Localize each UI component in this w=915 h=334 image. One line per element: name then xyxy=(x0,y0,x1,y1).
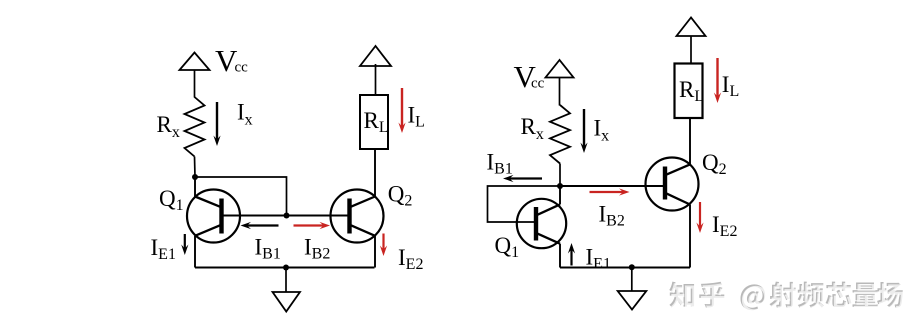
label Vcc (right) xyxy=(514,59,545,94)
label RL (right) xyxy=(679,77,704,105)
svg-text:IE1: IE1 xyxy=(151,235,176,263)
label Ix (left) xyxy=(237,100,253,129)
current arrow IE2 (left) xyxy=(380,234,387,257)
wire rail to ground (left) xyxy=(285,268,287,293)
junction dot ground rail (right) xyxy=(629,264,635,270)
current arrow IE2 (right) xyxy=(696,202,703,233)
transistor Q1 (left): circle, base bar, collector and emitter leads xyxy=(187,179,240,268)
label Rx (right) xyxy=(521,114,544,143)
resistor Rx (right) xyxy=(550,105,570,164)
label IE2 (right) xyxy=(712,212,737,240)
power Vcc symbol (right, RL branch) xyxy=(677,18,706,37)
svg-text:Q2: Q2 xyxy=(388,182,413,210)
label IE1 (left) xyxy=(151,235,176,263)
svg-text:Q1: Q1 xyxy=(159,186,184,214)
label Vcc (left) xyxy=(215,43,248,78)
wire rail to ground (right) xyxy=(631,267,633,291)
label Q2 (left) xyxy=(388,182,413,210)
transistor Q2 (left): circle, base bar, collector and emitter leads xyxy=(331,149,384,268)
current arrow IE1 (left) xyxy=(181,234,188,255)
wire Q1 base to Q2 base (left) xyxy=(222,215,350,217)
svg-text:IE2: IE2 xyxy=(398,245,423,273)
svg-text:Ix: Ix xyxy=(237,100,253,129)
current arrow Ix (right) xyxy=(580,109,587,153)
svg-text:Ix: Ix xyxy=(594,116,610,145)
ground symbol (left) xyxy=(273,292,300,312)
svg-text:IL: IL xyxy=(722,72,739,100)
wire Rx to node D (right) xyxy=(559,164,561,187)
node A: Rx bottom / Q1 collector junction (left) xyxy=(192,174,198,180)
node D: Rx bottom / Q1 collector / Q2 base junction (right) xyxy=(557,183,563,189)
label Q2 (right) xyxy=(702,150,727,178)
svg-text:RL: RL xyxy=(364,108,389,136)
ground symbol (right) xyxy=(618,291,647,310)
transistor Q2 (right): circle, base bar, collector and emitter leads xyxy=(646,118,699,268)
wire node A to base junction (left) xyxy=(195,177,287,216)
wire Vcc to RL (left) xyxy=(375,64,377,95)
svg-text:Q2: Q2 xyxy=(702,150,727,178)
label IE2 (left) xyxy=(398,245,423,273)
power Vcc symbol (left, RL branch) xyxy=(360,46,391,66)
svg-text:IB1: IB1 xyxy=(255,235,281,263)
current arrow IL (left) xyxy=(398,88,405,133)
svg-text:Rx: Rx xyxy=(521,114,544,143)
resistor Rx (left) xyxy=(185,97,205,157)
junction dot ground rail (left) xyxy=(283,265,289,271)
current arrow IE1 (right) xyxy=(568,243,575,266)
svg-text:Vcc: Vcc xyxy=(514,59,545,94)
wire Vcc to RL (right) xyxy=(690,36,692,63)
label IB1 (right) xyxy=(487,150,513,178)
watermark text 知乎 @射频芯量场 xyxy=(669,282,904,312)
wire bottom rail (right) xyxy=(560,267,690,269)
power Vcc symbol (right, Rx branch) xyxy=(546,60,574,78)
current arrow IB1 (right) xyxy=(503,175,542,182)
wire node D to Q2 base (right) xyxy=(560,185,665,187)
svg-text:Rx: Rx xyxy=(157,112,180,141)
svg-text:IE2: IE2 xyxy=(712,212,737,240)
label IB2 (right) xyxy=(599,202,625,230)
current arrow Ix (left) xyxy=(213,102,220,146)
transistor Q1 (right): circle, base bar, collector and emitter leads xyxy=(517,188,566,268)
wire Rx to node A (left) xyxy=(194,157,197,178)
wire Vcc to Rx (right) xyxy=(559,78,561,106)
wire node D to Q1 base loop (right) xyxy=(488,186,561,222)
power Vcc symbol (left, Rx branch) xyxy=(180,53,210,71)
current arrow IB1 (left) xyxy=(241,222,279,229)
label IL (left) xyxy=(408,103,425,131)
svg-text:IB2: IB2 xyxy=(304,235,330,263)
label Rx (left) xyxy=(157,112,180,141)
label Ix (right) xyxy=(594,116,610,145)
current arrow IL (right) xyxy=(714,58,721,103)
label Q1 (left) xyxy=(159,186,184,214)
label RL (left) xyxy=(364,108,389,136)
wire Vcc to Rx (left) xyxy=(194,70,196,98)
svg-text:Vcc: Vcc xyxy=(215,43,248,78)
current arrow IB2 (right) xyxy=(590,188,630,195)
resistor RL box (right) xyxy=(675,64,703,119)
label IE1 (right) xyxy=(586,245,611,273)
svg-text:IB1: IB1 xyxy=(487,150,513,178)
svg-text:RL: RL xyxy=(679,77,704,105)
label IL (right) xyxy=(722,72,739,100)
resistor RL box (left) xyxy=(360,95,388,149)
svg-text:IL: IL xyxy=(408,103,425,131)
wire bottom rail (left) xyxy=(195,267,375,269)
svg-text:IB2: IB2 xyxy=(599,202,625,230)
label IB1 (left) xyxy=(255,235,281,263)
svg-text:Q1: Q1 xyxy=(495,233,520,261)
junction dot on base wire (left) xyxy=(284,213,290,219)
label IB2 (left) xyxy=(304,235,330,263)
label Q1 (right) xyxy=(495,233,520,261)
current arrow IB2 (left) xyxy=(294,222,331,229)
